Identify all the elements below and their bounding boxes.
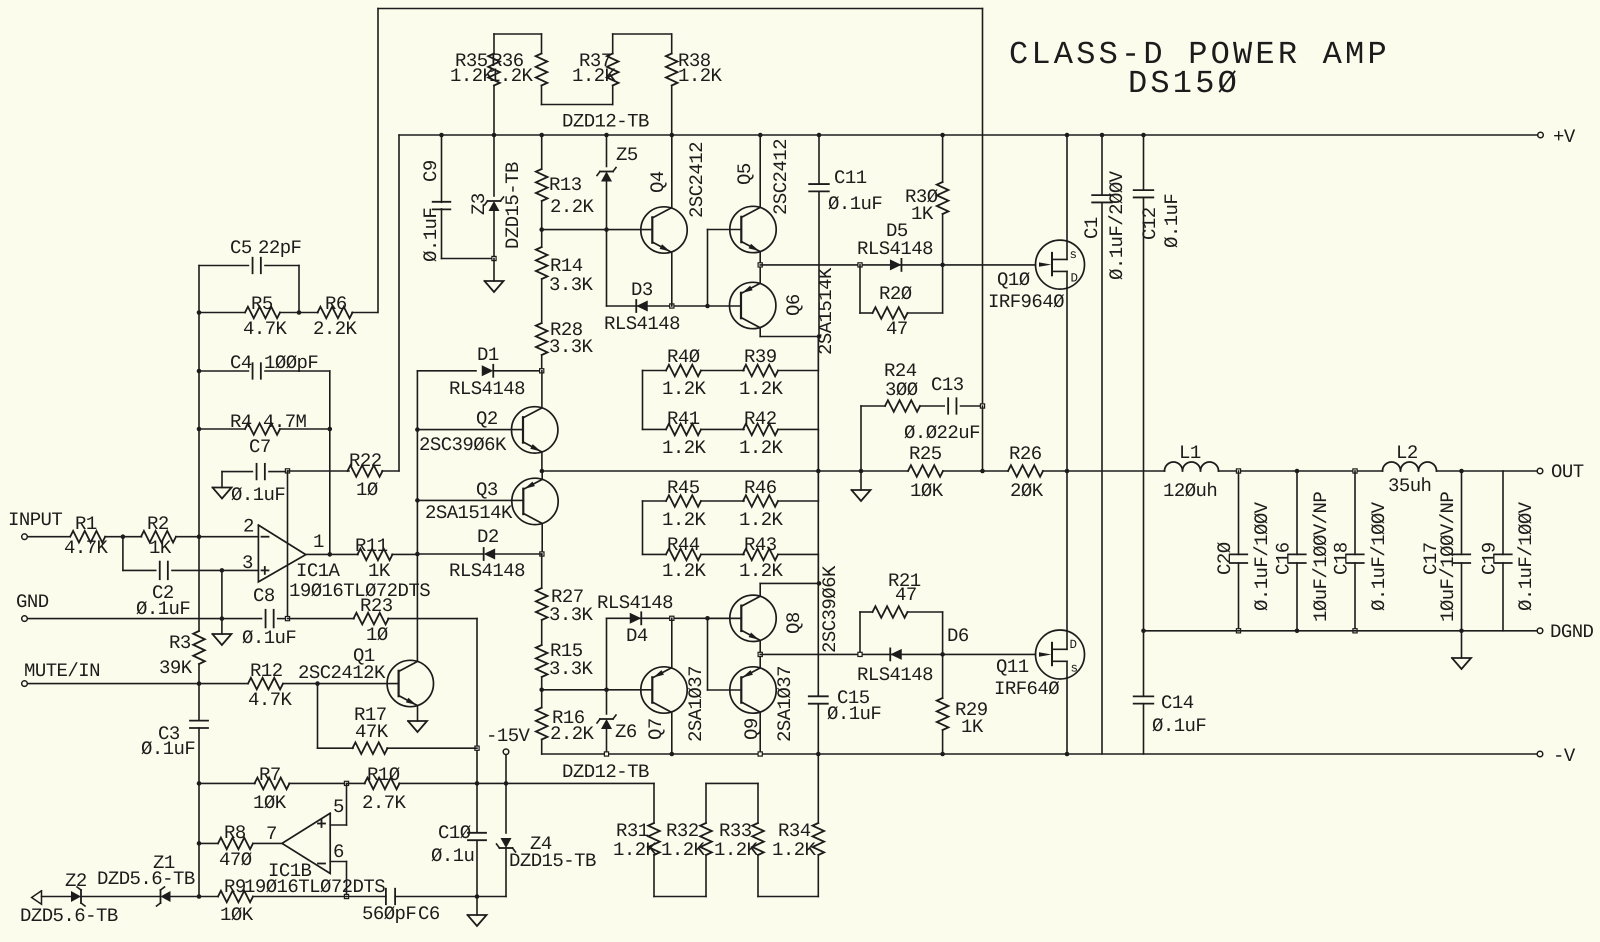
capacitor C17	[1420, 471, 1470, 631]
capacitor C13	[904, 374, 983, 444]
capacitor C14	[1134, 631, 1207, 754]
junction +V rail	[439, 133, 444, 138]
wire x477 vertical	[476, 619, 478, 784]
svg-text:R9: R9	[224, 876, 246, 898]
wire R31-R32 bottom U	[654, 855, 706, 897]
resistor R20	[860, 265, 943, 340]
svg-text:1.2K: 1.2K	[678, 65, 723, 87]
svg-text:C13: C13	[931, 374, 964, 396]
svg-text:C1Ø: C1Ø	[438, 822, 471, 844]
wire gnd stem2	[221, 619, 223, 634]
junction Z4 top	[504, 781, 509, 786]
junction Q2 emitter mid rail	[540, 469, 545, 474]
svg-text:Ø.1uF/2ØØV: Ø.1uF/2ØØV	[1106, 170, 1128, 280]
svg-text:Ø.1uF: Ø.1uF	[136, 598, 190, 620]
transistor Q8 2SC3906K	[730, 565, 841, 653]
label DZD12-TB lower	[562, 761, 649, 783]
resistor R2	[123, 513, 199, 559]
svg-text:Ø.1u: Ø.1u	[431, 845, 474, 867]
wire bank1 left vertical	[642, 371, 644, 430]
svg-text:2.2K: 2.2K	[550, 723, 595, 745]
svg-text:Ø.1uF: Ø.1uF	[242, 627, 296, 649]
svg-text:R42: R42	[744, 408, 777, 430]
svg-text:Q6: Q6	[783, 294, 805, 316]
junction D6-R21-R29	[940, 652, 945, 657]
wire Z5 down to D3 row	[606, 230, 608, 306]
junction C16 top	[1295, 469, 1300, 474]
wire bank2 left vertical	[642, 501, 644, 554]
capacitor C1	[1081, 135, 1128, 754]
svg-text:DZD5.6-TB: DZD5.6-TB	[97, 868, 195, 890]
junction Z5 bottom	[604, 227, 609, 232]
diode D5 RLS4148	[857, 220, 933, 271]
junction output-feedback	[328, 552, 333, 557]
wire Q1 collector	[416, 660, 418, 661]
wire Q5 collector	[759, 135, 761, 207]
svg-text:19Ø16TLØ72DTS: 19Ø16TLØ72DTS	[244, 876, 385, 898]
svg-text:3.3K: 3.3K	[549, 336, 594, 358]
junction C4 left	[197, 369, 202, 374]
capacitor C11	[809, 135, 882, 337]
svg-text:1.2K: 1.2K	[572, 65, 617, 87]
wire Q9 collector	[759, 712, 761, 754]
wire Q8 base	[708, 618, 742, 690]
wire Q1 base wire	[318, 683, 399, 685]
svg-text:Ø.1uF/1ØØV: Ø.1uF/1ØØV	[1515, 501, 1537, 611]
svg-text:1: 1	[313, 531, 324, 553]
wire Q11 source	[1066, 678, 1068, 754]
wire Q8 emitter	[759, 640, 761, 654]
transistor Q2 2SC3906K	[419, 407, 558, 456]
node R17-x477	[475, 746, 479, 750]
svg-text:R26: R26	[1009, 443, 1042, 465]
svg-text:Q5: Q5	[734, 163, 756, 185]
junction C3-R7	[197, 781, 202, 786]
wire C5 right vertical	[298, 266, 300, 313]
svg-text:4.7K: 4.7K	[248, 689, 293, 711]
svg-text:6: 6	[333, 841, 344, 863]
svg-text:47: 47	[895, 584, 917, 606]
node Q5-Q6 emitters	[758, 263, 762, 267]
wire R24 left vertical	[860, 406, 862, 471]
svg-text:R45: R45	[667, 477, 700, 499]
svg-text:R11: R11	[355, 535, 388, 557]
resistor R22	[288, 450, 400, 501]
node R7-R10-pin5	[344, 781, 348, 785]
node C18 bottom	[1353, 629, 1357, 633]
wire gate line Q10	[760, 264, 1035, 266]
wire Q11 drain	[1066, 471, 1068, 631]
terminal MUTE/IN	[22, 660, 100, 686]
wire D1 row	[417, 370, 476, 372]
svg-text:2SC39Ø6K: 2SC39Ø6K	[419, 434, 507, 456]
svg-text:1.2K: 1.2K	[613, 839, 658, 861]
junction MUTE-R3-C3	[197, 681, 202, 686]
wire R39 right up	[817, 337, 819, 371]
svg-text:3.3K: 3.3K	[549, 604, 594, 626]
wire GND line	[27, 618, 261, 620]
wire Q6 emitter	[759, 265, 761, 284]
resistor R31	[613, 820, 660, 861]
junction x417-R11	[415, 552, 420, 557]
svg-text:OUT: OUT	[1551, 461, 1584, 483]
terminal GND	[16, 591, 49, 621]
wire C7 ground stem	[221, 472, 223, 488]
wire R42 right down	[817, 429, 819, 471]
transistor Q3 2SA1514K	[425, 478, 558, 524]
wire R7 row	[199, 782, 255, 784]
capacitor C5	[199, 237, 302, 273]
svg-text:1ØK: 1ØK	[220, 904, 254, 926]
svg-text:Ø.1uF: Ø.1uF	[420, 208, 442, 262]
capacitor C15	[809, 583, 882, 754]
svg-text:C9: C9	[420, 160, 442, 182]
wire Q9 emitter	[759, 654, 761, 668]
svg-text:1ØK: 1ØK	[910, 480, 944, 502]
svg-text:R44: R44	[667, 534, 700, 556]
wire L2-OUT	[1437, 470, 1538, 472]
node D2-Q3	[540, 552, 544, 556]
wire C13 down to OUT line	[982, 406, 984, 471]
wire Z2 line	[42, 896, 71, 898]
wire Q7 base row	[542, 689, 652, 691]
junction R30-D5-R20	[940, 263, 945, 268]
junction Q6 collector node	[817, 334, 822, 339]
svg-text:Q3: Q3	[476, 479, 498, 501]
junction Q7 collector -V	[670, 752, 675, 757]
terminal -15V	[486, 725, 531, 755]
svg-text:R25: R25	[909, 443, 942, 465]
wire Q1 emitter	[417, 706, 419, 721]
svg-text:1.2K: 1.2K	[714, 839, 759, 861]
wire -15V row	[477, 782, 654, 784]
svg-text:C6: C6	[418, 903, 440, 925]
svg-text:INPUT: INPUT	[8, 509, 62, 531]
capacitor C4	[199, 352, 330, 379]
junction +V rail	[1065, 133, 1070, 138]
svg-text:2.2K: 2.2K	[550, 196, 595, 218]
transistor Q4 2SC2412	[641, 142, 708, 253]
wire x818 C11node-OUT	[817, 337, 819, 472]
svg-text:R6: R6	[325, 293, 347, 315]
resistor R44	[643, 534, 745, 582]
junction R10-C10	[475, 781, 480, 786]
resistor R36	[489, 50, 547, 87]
svg-text:Ø.1uF/1ØØV: Ø.1uF/1ØØV	[1251, 501, 1273, 611]
resistor R33	[714, 820, 764, 861]
wire x199 lower vertical	[198, 783, 200, 896]
svg-text:R2: R2	[147, 513, 169, 535]
wire pin5	[330, 783, 346, 825]
capacitor C12	[1134, 135, 1183, 631]
resistor R40	[643, 346, 745, 400]
resistor R29	[937, 654, 988, 754]
wire D1 to Q2 node	[494, 370, 542, 372]
transistor Q10 IRF9640	[988, 240, 1085, 313]
wire pin2 line	[199, 536, 258, 538]
svg-text:-V: -V	[1553, 745, 1576, 767]
junction Q8 collector node	[817, 581, 822, 586]
ground below Q1	[408, 721, 427, 732]
svg-text:RLS4148: RLS4148	[449, 378, 525, 400]
resistor R7	[253, 764, 347, 814]
svg-text:R43: R43	[744, 534, 777, 556]
junction +V rail	[1141, 133, 1146, 138]
svg-text:4.7K: 4.7K	[64, 537, 109, 559]
junction C17 top	[1459, 469, 1464, 474]
svg-text:Ø.Ø22uF: Ø.Ø22uF	[904, 422, 980, 444]
transistor Q5 2SC2412	[730, 139, 792, 253]
wire Q5 emitter	[759, 252, 761, 265]
svg-text:C14: C14	[1161, 692, 1194, 714]
svg-text:1.2K: 1.2K	[662, 378, 707, 400]
wire R32-R33 top U	[706, 783, 758, 823]
wire Q7 emitter	[671, 618, 673, 668]
svg-text:C11: C11	[834, 167, 867, 189]
svg-text:MUTE/IN: MUTE/IN	[24, 660, 100, 682]
resistor R3	[159, 537, 205, 684]
svg-text:1K: 1K	[911, 203, 934, 225]
junction C12-DGND	[1141, 629, 1146, 634]
capacitor C9	[420, 135, 494, 262]
svg-text:DZD12-TB: DZD12-TB	[562, 111, 649, 133]
svg-text:2SA1Ø37: 2SA1Ø37	[685, 666, 707, 742]
svg-text:s: s	[1070, 248, 1078, 262]
inductor L2 35uh	[1383, 442, 1437, 497]
svg-text:C5: C5	[230, 237, 252, 259]
svg-text:1ØuF/1ØØV/NP: 1ØuF/1ØØV/NP	[1437, 492, 1459, 622]
transistor Q7 2SA1037	[641, 666, 707, 742]
wire R38 bottom	[671, 86, 673, 136]
junction Q10-Q11 drains OUT	[1065, 469, 1070, 474]
wire R33-R34 bottom U	[758, 855, 818, 897]
svg-text:DZD12-TB: DZD12-TB	[562, 761, 649, 783]
diode D3	[604, 279, 680, 335]
svg-text:R1Ø: R1Ø	[367, 764, 400, 786]
svg-text:R8: R8	[224, 822, 246, 844]
resistor R27	[536, 554, 594, 626]
svg-text:2SA1514K: 2SA1514K	[425, 502, 513, 524]
svg-text:Ø.1uF: Ø.1uF	[1161, 194, 1183, 248]
svg-text:+V: +V	[1553, 126, 1576, 148]
terminal INPUT	[8, 509, 62, 540]
wire Q10 source	[1066, 135, 1068, 241]
svg-text:C16: C16	[1273, 542, 1295, 575]
svg-text:1Ø: 1Ø	[356, 479, 378, 501]
junction +V rail	[940, 133, 945, 138]
wire Z1-R9	[171, 896, 199, 898]
junction R5 left	[197, 310, 202, 315]
capacitor C7	[222, 436, 288, 506]
junction Z6 top	[604, 688, 609, 693]
svg-text:C4: C4	[230, 352, 252, 374]
net +V rail	[399, 134, 1538, 136]
wire R35-R36 top bridge	[494, 34, 542, 54]
svg-text:R7: R7	[259, 764, 281, 786]
svg-text:Z6: Z6	[615, 721, 637, 743]
svg-text:Ø.1uF: Ø.1uF	[1152, 715, 1206, 737]
wire feedback right vertical x983	[982, 9, 984, 407]
svg-text:R41: R41	[667, 408, 700, 430]
svg-text:2SA1Ø37: 2SA1Ø37	[774, 666, 796, 742]
svg-text:RLS4148: RLS4148	[857, 664, 933, 686]
svg-text:RLS4148: RLS4148	[604, 313, 680, 335]
resistor R26	[1008, 443, 1044, 502]
svg-text:2: 2	[243, 516, 254, 538]
svg-text:Q7: Q7	[645, 718, 667, 740]
svg-text:56ØpF: 56ØpF	[362, 903, 416, 925]
resistor R15	[536, 620, 594, 690]
resistor R4	[199, 411, 330, 435]
resistor R28	[536, 279, 594, 371]
node C20 top	[1236, 469, 1240, 473]
svg-text:R2Ø: R2Ø	[879, 283, 912, 305]
wire R37-R38 top bridge	[613, 34, 672, 54]
wire Q3 collector	[541, 524, 543, 555]
svg-text:Z2: Z2	[65, 870, 87, 892]
wire Q4 collector	[671, 135, 673, 208]
wire R34 top	[817, 754, 819, 823]
zener Z6	[597, 618, 637, 754]
resistor R21	[860, 570, 943, 654]
svg-text:C18: C18	[1331, 542, 1353, 575]
svg-text:2SC2412: 2SC2412	[686, 142, 708, 218]
wire vertical x417	[416, 371, 418, 661]
net -V rail	[542, 753, 1537, 755]
wire Q4 base row	[542, 229, 652, 231]
wire R43 right down	[817, 554, 819, 583]
wire IC1A output	[306, 553, 358, 555]
svg-text:Ø.1uF: Ø.1uF	[827, 703, 881, 725]
junction GND line	[220, 616, 225, 621]
resistor R42	[739, 408, 818, 459]
svg-text:1.2K: 1.2K	[661, 839, 706, 861]
wire Q10 drain	[1066, 288, 1068, 471]
node Q8-Q9 emitters	[758, 652, 762, 656]
resistor R32	[661, 820, 712, 861]
junction C10-C6 line	[475, 894, 480, 899]
node Z6 bottom -V	[604, 752, 608, 756]
resistor R41	[643, 408, 745, 459]
node C20 bottom	[1236, 629, 1240, 633]
svg-text:7: 7	[266, 823, 277, 845]
junction +V rail	[758, 133, 763, 138]
junction x818--V	[816, 752, 821, 757]
svg-text:12Øuh: 12Øuh	[1163, 480, 1217, 502]
ground below Z3	[485, 281, 504, 292]
resistor R9	[199, 876, 347, 926]
wire feedback top border	[378, 8, 983, 10]
svg-text:C8: C8	[253, 585, 275, 607]
svg-text:R3: R3	[169, 632, 191, 654]
wire R17 left vertical	[317, 684, 319, 749]
svg-text:2SC2412: 2SC2412	[770, 139, 792, 215]
svg-text:35uh: 35uh	[1388, 475, 1431, 497]
node D1-Q2 collector	[540, 369, 544, 373]
svg-text:Z3: Z3	[468, 193, 490, 215]
resistor R39	[739, 346, 818, 400]
svg-text:1.2K: 1.2K	[739, 560, 784, 582]
wire MUTE line	[27, 683, 199, 685]
svg-text:Q4: Q4	[647, 171, 669, 193]
wire C4-R4 right vertical	[329, 371, 331, 554]
wire pin6	[330, 862, 346, 897]
wire Q7 collector	[671, 712, 673, 754]
junction D4-Q8Q9 base	[705, 616, 710, 621]
capacitor C3	[141, 684, 208, 784]
svg-text:D: D	[1070, 638, 1078, 652]
terminal -V	[1537, 745, 1576, 767]
svg-text:D2: D2	[477, 526, 499, 548]
resistor R43	[739, 534, 818, 582]
junction x818-OUT	[816, 469, 821, 474]
node Q4 emitter-D3	[670, 304, 674, 308]
svg-text:Z5: Z5	[616, 144, 638, 166]
svg-text:IRF64Ø: IRF64Ø	[994, 678, 1059, 700]
svg-text:4.7M: 4.7M	[263, 411, 307, 433]
wire DGND gnd stem	[1461, 631, 1463, 658]
junction R13-R14-Q4base	[539, 227, 544, 232]
svg-text:Ø.1uF/1ØØV: Ø.1uF/1ØØV	[1368, 501, 1390, 611]
net switching mid rail	[542, 470, 1165, 472]
node D5 left	[858, 263, 862, 267]
label DZD12-TB upper	[562, 111, 649, 133]
junction x417-Q2base	[415, 427, 420, 432]
svg-text:1.2K: 1.2K	[662, 560, 707, 582]
junction R29--V	[940, 752, 945, 757]
svg-text:1K: 1K	[961, 716, 984, 738]
capacitor C19	[1479, 471, 1538, 631]
svg-text:2SC2412K: 2SC2412K	[298, 662, 386, 684]
svg-text:DZD5.6-TB: DZD5.6-TB	[20, 905, 118, 927]
junction x983-OUT	[980, 469, 985, 474]
wire L1-L2	[1219, 470, 1383, 472]
svg-text:GND: GND	[16, 591, 49, 613]
svg-text:3.3K: 3.3K	[549, 274, 594, 296]
zener Z3	[468, 135, 524, 259]
terminal arrow left	[32, 891, 42, 904]
transistor Q1 2SC2412K	[298, 645, 433, 707]
svg-text:RLS4148: RLS4148	[449, 560, 525, 582]
svg-text:D: D	[1071, 272, 1079, 286]
node Q9 collector -V	[758, 752, 762, 756]
wire x818 OUT-Q8node	[817, 471, 819, 583]
ground below DGND	[1452, 658, 1471, 669]
svg-text:5: 5	[333, 796, 344, 818]
capacitor C20	[1214, 471, 1273, 631]
capacitor C10	[431, 783, 486, 896]
wire R46 right up	[817, 471, 819, 501]
op-amp IC1B	[244, 796, 385, 898]
resistor R1	[27, 513, 123, 559]
svg-text:1.2K: 1.2K	[489, 65, 534, 87]
svg-text:DGND: DGND	[1550, 621, 1594, 643]
resistor R30	[905, 135, 948, 265]
resistor R11	[355, 535, 417, 582]
svg-text:Ø.1uF: Ø.1uF	[828, 193, 882, 215]
node D6 left	[858, 652, 862, 656]
ground below C7	[213, 488, 232, 499]
wire R36-R37 bottom bridge	[542, 86, 613, 105]
wire gate line Q11	[760, 653, 1035, 655]
zener Z2 DZD5.6-TB	[65, 868, 195, 906]
inductor L1 120uh	[1163, 442, 1219, 502]
wire R22 right vertical x399	[398, 135, 400, 471]
resistor R13	[536, 135, 595, 230]
svg-text:Q11: Q11	[996, 656, 1029, 678]
wire -15V stem	[505, 755, 507, 784]
svg-text:1.2K: 1.2K	[739, 378, 784, 400]
